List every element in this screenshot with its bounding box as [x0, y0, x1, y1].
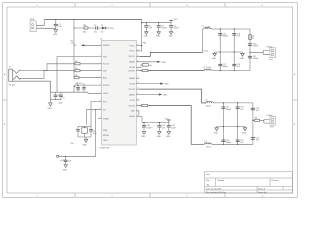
capacitor C6: [54, 92, 58, 100]
capacitor C13: [76, 126, 80, 137]
ground left cluster: [49, 103, 53, 106]
svg-text:14: 14: [137, 82, 139, 84]
wire cluster B bus: [139, 116, 169, 122]
ground lower mid right: [243, 128, 247, 131]
svg-text:AGND: AGND: [129, 93, 135, 96]
wire lower block top rail: [213, 102, 253, 104]
wire D1 out: [105, 27, 109, 29]
svg-text:File: sounding4.SchDoc: File: sounding4.SchDoc: [206, 192, 226, 194]
test point TP1 circle: [57, 155, 59, 157]
svg-text:TEST: TEST: [103, 140, 109, 142]
connector J3 line out: [270, 48, 276, 58]
wire gnd bus left cluster: [50, 92, 61, 103]
svg-text:10uH: 10uH: [206, 67, 211, 69]
wire upper mid gnd: [215, 52, 243, 53]
capacitor C5: [169, 23, 173, 32]
capacitor C15: [64, 156, 68, 164]
wire bottom TEST row: [98, 118, 102, 120]
svg-text:4: 4: [262, 196, 263, 198]
junction C11: [159, 122, 160, 123]
junction rail x74: [74, 19, 75, 20]
svg-text:680pF: 680pF: [223, 66, 229, 68]
wire VOUTL channel1 jog: [139, 52, 202, 56]
junction upper feed: [249, 52, 250, 53]
capacitor C26: [251, 108, 255, 110]
junction upper rail2 top: [234, 28, 235, 29]
svg-text:R4: R4: [75, 61, 77, 63]
junction upper rail1 bottom: [220, 70, 221, 71]
svg-text:AGND: AGND: [129, 61, 135, 64]
wire vcom stub: [139, 65, 142, 68]
svg-text:2: 2: [112, 5, 113, 7]
net flag arrow AGND3: [159, 93, 163, 95]
svg-text:A4: A4: [207, 183, 209, 186]
svg-text:VoutL: VoutL: [204, 49, 209, 52]
junction upper mid2: [234, 51, 235, 52]
svg-text:GND: GND: [53, 34, 58, 36]
svg-text:VDD: VDD: [110, 28, 115, 30]
capacitor C9: [82, 85, 86, 92]
inductor L1: [203, 28, 212, 53]
capacitor C24: [236, 107, 240, 109]
svg-text:DGND: DGND: [129, 116, 135, 118]
wire AGND arrow row1: [139, 61, 157, 63]
junction lower feed: [252, 120, 253, 121]
svg-text:680pF: 680pF: [226, 109, 232, 111]
svg-text:FB2: FB2: [143, 43, 146, 45]
ground C11: [158, 132, 162, 135]
svg-text:C7: C7: [62, 98, 64, 100]
svg-text:VOUT3: VOUT3: [128, 89, 134, 91]
svg-text:100n: 100n: [59, 103, 63, 105]
svg-text:VCC: VCC: [165, 118, 170, 120]
wire host vertical: [59, 110, 96, 157]
resistor R7: [249, 35, 252, 40]
resistor R3 on VOUT4 row: [142, 104, 148, 106]
svg-text:S4: S4: [101, 31, 103, 33]
junction lower rail2 top: [237, 102, 238, 103]
svg-text:3: 3: [187, 5, 188, 7]
inductor L3: [202, 101, 214, 102]
inductor L4: [204, 143, 211, 145]
svg-text:J2: J2: [9, 67, 11, 69]
net flag arrow AGND1: [157, 61, 161, 63]
capacitor C22: [221, 107, 225, 109]
svg-text:VOUT4: VOUT4: [128, 105, 134, 107]
wire VOUTR channel2: [139, 70, 204, 72]
title block outline: [205, 172, 293, 193]
junction bus A tap: [141, 22, 142, 23]
svg-text:VCOM: VCOM: [129, 67, 135, 69]
svg-text:L1: L1: [202, 26, 204, 28]
border tick right y100: [293, 99, 298, 101]
svg-text:CON(b): CON(b): [266, 115, 273, 117]
svg-text:GND: GND: [166, 136, 171, 138]
wire crystal gnd bus: [78, 137, 91, 139]
junction C10: [143, 122, 144, 123]
wire upper block bottom rail: [212, 70, 250, 72]
wire VOUT4 channel4: [139, 106, 204, 145]
ground C5: [169, 32, 173, 35]
svg-text:PVCC: PVCC: [130, 51, 136, 53]
svg-text:GND: GND: [163, 95, 168, 97]
wire DGND rows join: [138, 111, 140, 117]
U1 right pin numbers: [137, 44, 139, 117]
svg-text:DGND: DGND: [103, 118, 109, 120]
svg-text:Sheet of: Sheet of: [258, 187, 266, 190]
svg-text:PJ-313: PJ-313: [9, 84, 15, 86]
border tick bottom x150: [149, 193, 151, 197]
wire lower connector feed with resistor: [253, 119, 270, 123]
svg-text:VOUTR: VOUTR: [128, 70, 135, 72]
wire lower rail3 vertical: [252, 103, 254, 144]
svg-text:L4: L4: [205, 141, 207, 143]
svg-text:10u: 10u: [94, 31, 97, 33]
ferrite bead FB1: [84, 27, 88, 29]
wire J1 pin1 to +5V rail: [36, 20, 44, 26]
svg-text:1: 1: [37, 196, 38, 198]
svg-text:Number: Number: [218, 179, 225, 182]
wire lower rail2 vertical: [237, 103, 239, 144]
svg-text:VIO: VIO: [73, 45, 77, 47]
decoupling cluster B capacitor C10: [142, 123, 146, 132]
junction lower mid1: [223, 126, 224, 127]
svg-text:1k: 1k: [252, 38, 254, 40]
capacitor C14: [89, 126, 93, 137]
svg-text:GND: GND: [214, 133, 219, 135]
svg-text:10uH: 10uH: [205, 26, 210, 28]
capacitor C7: [59, 92, 63, 100]
svg-text:XTI: XTI: [103, 110, 106, 112]
wire lower block bottom rail: [212, 143, 253, 145]
crystal X1 circuit: [78, 126, 91, 137]
net flag arrow SSPND: [81, 44, 84, 46]
wire FB1 to C2: [88, 27, 95, 29]
wire chain y28 start: [74, 27, 84, 29]
junction lower rail1 top: [223, 102, 224, 103]
ground upper mid right: [241, 53, 245, 56]
ground C12: [167, 132, 171, 135]
svg-text:12: 12: [137, 93, 139, 95]
svg-text:AGND: AGND: [129, 77, 135, 80]
wire PVCC pins to rail drop: [139, 20, 141, 51]
capacitor C2 polarized: [96, 26, 98, 29]
junction J1 cap rail: [55, 19, 56, 20]
svg-text:2.54: 2.54: [270, 127, 274, 129]
svg-text:PCM2702E: PCM2702E: [100, 148, 110, 150]
svg-text:4: 4: [262, 5, 263, 7]
svg-text:Title: Title: [206, 173, 210, 176]
svg-text:18: 18: [137, 60, 139, 62]
capacitor C23: [221, 140, 225, 142]
svg-text:D1: D1: [101, 25, 103, 27]
capacitor C17: [218, 64, 222, 66]
svg-text:PVCC: PVCC: [130, 45, 136, 47]
resistor R2 on VOUTR row: [142, 69, 148, 71]
svg-text:L3: L3: [206, 100, 208, 102]
svg-text:GND: GND: [212, 58, 217, 60]
junction upper rail1 top: [220, 28, 221, 29]
svg-text:VDD: VDD: [103, 56, 108, 58]
svg-text:10uH: 10uH: [206, 105, 211, 107]
border tick top x75: [74, 3, 76, 7]
capacitor C18: [232, 34, 236, 36]
junction lower mid2: [237, 126, 238, 127]
border tick top x225: [224, 3, 226, 7]
capacitor C1: [54, 20, 58, 30]
border tick bottom x225: [224, 193, 226, 197]
svg-text:2: 2: [112, 196, 113, 198]
wire BCK row with resistor: [20, 70, 102, 79]
decoupling cluster A bus: [142, 22, 171, 24]
U1 left pin names: [103, 45, 110, 142]
sheet outer border: [3, 3, 298, 198]
wire AGND arrow row3: [139, 94, 159, 96]
power port VCC cluster A: [169, 20, 173, 22]
capacitor C20: [248, 44, 252, 46]
svg-text:600: 600: [83, 31, 86, 33]
ground lower mid left: [215, 128, 219, 131]
junction PVCC1: [141, 45, 142, 46]
svg-text:FB1: FB1: [83, 25, 86, 27]
svg-text:GND: GND: [168, 35, 173, 37]
svg-text:Size: Size: [206, 180, 210, 182]
capacitor C28 vcom series box: [142, 64, 148, 67]
svg-text:VCC2: VCC2: [130, 100, 135, 102]
svg-text:GND: GND: [156, 35, 161, 37]
svg-text:100nF: 100nF: [146, 127, 152, 129]
svg-text:21: 21: [137, 44, 139, 46]
svg-text:10u: 10u: [149, 65, 152, 67]
capacitor C11: [157, 123, 161, 132]
svg-text:MODE: MODE: [103, 135, 109, 137]
svg-text:CON(a): CON(a): [266, 46, 273, 48]
wire J1 pin2 gnd (gray): [36, 27, 56, 29]
wire lower mid gnd: [217, 127, 245, 128]
junction xtal feed: [95, 109, 96, 110]
border tick left y100: [3, 99, 7, 101]
junction C4: [158, 22, 159, 23]
wire upper rail2 vertical: [233, 29, 235, 71]
svg-text:16: 16: [137, 69, 139, 71]
inductor L2: [204, 69, 211, 71]
svg-text:100nF: 100nF: [253, 58, 259, 60]
ground C4: [157, 32, 161, 35]
svg-text:15: 15: [137, 77, 139, 79]
svg-text:100nF: 100nF: [174, 27, 180, 29]
border tick bottom x75: [74, 193, 76, 197]
wire upper block top rail: [212, 28, 251, 30]
svg-text:12M: 12M: [93, 133, 97, 135]
capacitor C12: [167, 123, 171, 132]
junction C15: [65, 156, 66, 157]
junction upper rail2 bottom: [234, 70, 235, 71]
svg-text:R8 22: R8 22: [76, 83, 81, 85]
wire +5V rail top: [45, 19, 142, 21]
svg-text:C9: C9: [82, 83, 84, 85]
svg-text:680pF: 680pF: [223, 36, 229, 38]
svg-text:17: 17: [137, 66, 139, 68]
svg-text:L2: L2: [203, 67, 205, 69]
svg-text:XTO: XTO: [103, 101, 107, 103]
capacitor C21: [248, 56, 252, 58]
svg-text:GND: GND: [47, 108, 52, 110]
svg-text:SSPND: SSPND: [103, 45, 110, 47]
svg-text:PWR: PWR: [30, 19, 35, 21]
U1 left pin numbers: [100, 44, 102, 119]
connector J1 power input: [30, 21, 36, 32]
junction mesh dot: [74, 86, 75, 87]
capacitor C27: [251, 138, 255, 140]
svg-text:VDD: VDD: [131, 111, 136, 113]
capacitor C19: [232, 64, 236, 66]
svg-text:19: 19: [137, 55, 139, 57]
junction C8: [77, 85, 78, 86]
svg-text:GND: GND: [141, 136, 146, 138]
U1 right pin names: [128, 45, 135, 118]
wire vertical x74 from rail down to pullup row: [73, 20, 75, 78]
capacitor C8: [76, 85, 80, 92]
wire DGND row to crystal: [86, 110, 101, 125]
wire XTI row to crystal: [91, 102, 102, 127]
wire upper rail1 vertical: [219, 29, 221, 71]
ground C3: [145, 32, 149, 35]
wire SSPND to flag: [84, 44, 101, 46]
ground C10: [142, 132, 146, 135]
svg-text:100nF: 100nF: [161, 27, 167, 29]
capacitor C25: [236, 140, 240, 142]
capacitor C16: [218, 34, 222, 36]
connector J4 head out: [270, 117, 276, 126]
svg-text:FSEL: FSEL: [103, 130, 108, 132]
wire VDD row left: [57, 57, 102, 93]
svg-text:10: 10: [137, 104, 139, 106]
jack J2 audio: [9, 69, 20, 81]
power port VCC cluster B: [167, 120, 171, 123]
svg-text:LRCK: LRCK: [103, 93, 109, 95]
U1 right pin stubs: [136, 46, 139, 117]
op IC U1 main DAC box: [102, 40, 137, 145]
sheet inner border: [7, 7, 293, 193]
svg-text:SYSCK: SYSCK: [103, 85, 110, 87]
junction chain x74: [74, 28, 75, 29]
svg-text:10uH: 10uH: [206, 147, 211, 149]
diode D1: [102, 27, 105, 30]
svg-text:GND: GND: [164, 84, 169, 86]
svg-text:680pF: 680pF: [226, 142, 232, 144]
ground crystal: [84, 139, 88, 142]
svg-text:GND: GND: [242, 133, 247, 135]
svg-text:VOUTL: VOUTL: [128, 56, 134, 58]
svg-text:GND: GND: [144, 35, 149, 37]
wire AGND arrow row2: [139, 83, 160, 85]
wire VOUT3 channel3: [139, 89, 206, 103]
svg-text:R5: R5: [75, 68, 77, 70]
ground below C1: [54, 30, 58, 33]
svg-text:VCCA: VCCA: [130, 82, 136, 85]
svg-text:11: 11: [137, 99, 139, 101]
wire upper connector feed: [250, 50, 270, 54]
svg-text:2.54: 2.54: [269, 59, 273, 61]
wire C2 to D1: [97, 27, 102, 29]
wire SYSCK row with resistor: [74, 77, 102, 79]
svg-text:13: 13: [137, 88, 139, 90]
svg-text:3: 3: [187, 196, 188, 198]
wire upper rail3 vertical: [249, 29, 251, 71]
wire jack sleeve to gnd: [12, 81, 50, 92]
svg-text:GND: GND: [240, 58, 245, 60]
junction lower rail1 bottom: [223, 144, 224, 145]
svg-text:VCC: VCC: [174, 19, 179, 21]
junction upper mid1: [220, 51, 221, 52]
svg-text:GND: GND: [161, 62, 166, 64]
svg-text:R6: R6: [75, 75, 77, 77]
border tick top x150: [149, 3, 151, 7]
ground upper mid left: [213, 53, 217, 56]
svg-text:GND: GND: [157, 136, 162, 138]
svg-text:473: 473: [77, 89, 80, 91]
svg-text:Date: 11-Jul-2018: Date: 11-Jul-2018: [206, 187, 221, 190]
svg-text:PLLCE: PLLCE: [103, 64, 110, 66]
svg-text:U1: U1: [100, 39, 102, 41]
svg-text:GND: GND: [82, 145, 87, 147]
wire x74 to caps bus: [73, 85, 75, 92]
wire lower rail1 vertical: [222, 103, 224, 144]
wire LRCK row: [74, 84, 102, 86]
wire left caps bus: [50, 91, 88, 93]
svg-text:22p: 22p: [71, 143, 74, 145]
wire XTO row: [88, 92, 102, 93]
svg-text:1: 1: [37, 5, 38, 7]
net flag arrow AGND2: [160, 83, 164, 85]
ground C15: [64, 165, 68, 168]
svg-text:Revision: Revision: [272, 180, 279, 182]
capacitor C4: [157, 23, 161, 32]
wire DIN row with resistor: [20, 63, 102, 71]
svg-text:C2: C2: [94, 25, 96, 27]
svg-text:20: 20: [137, 49, 139, 51]
junction lower rail2 bottom: [237, 144, 238, 145]
svg-text:100nF: 100nF: [253, 46, 259, 48]
capacitor C3: [144, 23, 148, 32]
svg-text:Drawn By:: Drawn By:: [258, 191, 267, 194]
svg-text:R8: R8: [255, 118, 257, 120]
svg-text:GND: GND: [63, 169, 68, 171]
junction C3: [146, 22, 147, 23]
